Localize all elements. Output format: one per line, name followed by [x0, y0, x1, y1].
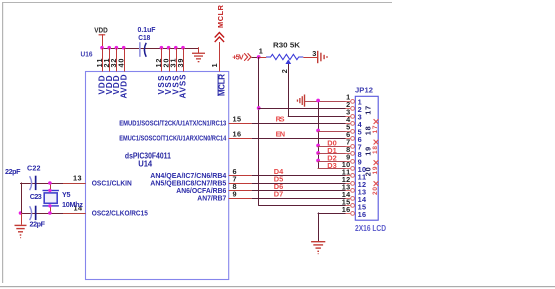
U16 reference text — [81, 50, 93, 59]
JP12 outside pin number labels 1-16 — [342, 93, 351, 215]
svg-text:16: 16 — [358, 210, 367, 219]
pin number 2 (R30 wiper, rotated) — [280, 69, 289, 73]
pin number 1 (R30) — [259, 47, 263, 56]
svg-text:JP12: JP12 — [355, 85, 373, 94]
pin names inside chip top (rotated) — [98, 74, 227, 99]
junction node rail/pin2 wire — [257, 106, 261, 110]
pin number 16 — [233, 129, 242, 138]
svg-text:17: 17 — [363, 106, 372, 115]
pin name AN4 row — [150, 171, 227, 180]
pin numbers 6,7,8,9 — [233, 167, 237, 199]
svg-text:39: 39 — [176, 59, 185, 68]
wire OSC2 row — [20, 213, 63, 214]
wire wiper to JP12 pin3 — [288, 116, 346, 117]
chip right pin 15 stub (RS) — [229, 123, 252, 124]
svg-text:C18: C18 — [138, 33, 150, 42]
svg-text:MCLR: MCLR — [216, 4, 225, 28]
ground (bottom-left, crystal) — [15, 213, 27, 238]
ground (right of R30, rotated) — [312, 51, 328, 63]
ground (top, at C18 bus) — [192, 47, 205, 62]
svg-text:OSC1/CLKIN: OSC1/CLKIN — [92, 179, 132, 188]
svg-text:9: 9 — [233, 189, 237, 198]
port MCLR (top) — [215, 4, 226, 42]
net label RS — [276, 115, 285, 124]
svg-text:Y5: Y5 — [62, 190, 71, 199]
pin number labels top (rotated) — [95, 59, 219, 68]
wire ground to JP12 pin1 — [305, 101, 346, 102]
pin number 14 — [74, 204, 83, 213]
svg-text:2: 2 — [280, 69, 289, 73]
wire +5V rail to JP12 pin15 — [258, 205, 346, 206]
chip right pins 6-9 stubs (D4-D7) — [229, 175, 252, 199]
wire MCLR to pin 1 — [219, 42, 220, 72]
node dots OSC rows — [19, 181, 52, 215]
svg-text:16: 16 — [342, 205, 351, 214]
wire R30 wiper down — [288, 64, 289, 117]
wire left rail vertical — [21, 183, 22, 214]
wire JP12 pin16 down — [318, 213, 319, 242]
svg-text:18: 18 — [372, 146, 379, 154]
wire stub D3 to pin10 — [318, 168, 346, 169]
svg-text:20: 20 — [363, 167, 372, 176]
no-connect X marks pins 17-20 — [374, 119, 379, 186]
pin number 15 — [233, 114, 242, 123]
pin name AN6 row — [176, 186, 226, 195]
wire RS to JP12 pin4 — [252, 123, 346, 124]
IC U14 dsPIC30F4011 body — [86, 72, 229, 280]
svg-text:U16: U16 — [81, 50, 93, 59]
svg-text:AN7/RB7: AN7/RB7 — [197, 194, 226, 203]
svg-text:AVSS: AVSS — [179, 74, 188, 99]
svg-text:C22: C22 — [27, 163, 41, 172]
svg-text:EMUC1/SOSCO/T1CK/U1ARX/CN0/RC1: EMUC1/SOSCO/T1CK/U1ARX/CN0/RC14 — [119, 134, 227, 143]
net labels D0-D3 — [327, 138, 337, 170]
svg-text:20: 20 — [372, 187, 379, 195]
wire +5V rail vertical — [258, 57, 259, 206]
wire grounded bus vertical (pins 1,5,7-10) — [318, 100, 319, 168]
capacitor C22 — [5, 163, 41, 190]
svg-text:10Mhz: 10Mhz — [62, 200, 83, 209]
wire stub D2 to pin9 — [318, 161, 346, 162]
svg-text:13: 13 — [73, 174, 82, 183]
2X16 LCD label — [355, 224, 386, 233]
pin name OSC1/CLKIN — [92, 179, 132, 188]
net label EN — [276, 130, 286, 139]
svg-text:C23: C23 — [30, 192, 42, 201]
svg-text:40: 40 — [116, 59, 125, 68]
svg-text:2X16 LCD: 2X16 LCD — [355, 224, 386, 233]
chip left pin 14 OSC2 stub — [63, 213, 86, 214]
wire VDD bus left segment — [102, 48, 146, 49]
svg-text:R30 5K: R30 5K — [273, 41, 301, 50]
svg-text:D7: D7 — [274, 190, 284, 199]
ground (rotated, at JP12 pin1) — [297, 95, 305, 107]
svg-text:VDD: VDD — [94, 26, 108, 35]
JP12 inside pin numbers 1-16 — [358, 97, 367, 219]
port +5V — [232, 53, 251, 62]
pin name EMUD1 row — [119, 119, 226, 128]
junction dots grounded bus — [316, 99, 320, 163]
pin name EMUC1 row — [119, 134, 227, 143]
svg-text:18: 18 — [363, 126, 372, 135]
svg-text:15: 15 — [233, 114, 242, 123]
JP12 right-side pin numbers 17-20 (rotated) — [363, 106, 372, 177]
wire stub D0 to pin7 — [318, 146, 346, 147]
no-connect pin name ticks 17-20 (red rotated) — [372, 125, 379, 195]
svg-text:3: 3 — [312, 49, 316, 58]
wire +5V to JP12 pin2 — [258, 108, 346, 109]
capacitor C23 — [30, 192, 46, 228]
svg-text:22pF: 22pF — [5, 167, 21, 176]
svg-text:1: 1 — [210, 63, 219, 67]
svg-text:22pF: 22pF — [30, 220, 46, 229]
pin stubs VSS pins 12,20,31,39 — [161, 48, 184, 72]
wire stub D1 to pin8 — [318, 153, 346, 154]
svg-text:+5V: +5V — [232, 53, 244, 62]
svg-text:U14: U14 — [138, 160, 153, 169]
pin stubs VDD pins 11,21,32,40 — [102, 48, 125, 72]
resistor R30 (potentiometer) — [259, 41, 312, 64]
wire VDD bus right segment — [145, 48, 199, 49]
pin name AN5 row — [150, 179, 226, 188]
svg-text:EN: EN — [276, 130, 286, 139]
wire EN to JP12 pin6 — [252, 138, 346, 139]
svg-text:17: 17 — [372, 125, 379, 133]
pin name OSC2/CLKO/RC15 — [92, 209, 148, 218]
svg-text:1: 1 — [259, 47, 263, 56]
svg-text:19: 19 — [372, 166, 379, 174]
power VDD symbol — [94, 26, 108, 48]
pin number 3 (R30) — [312, 49, 316, 58]
chip right pin 16 stub (EN) — [229, 138, 252, 139]
crystal Y5 — [43, 183, 84, 213]
junction node +5V / R30 pin1 — [257, 55, 261, 59]
wire JP12 pin16 horizontal — [318, 213, 346, 214]
pin number 13 — [73, 174, 82, 183]
svg-text:RS: RS — [276, 115, 285, 124]
svg-text:MCLR: MCLR — [217, 74, 226, 96]
chip left pin 13 OSC1 stub — [63, 183, 86, 184]
svg-text:OSC2/CLKO/RC15: OSC2/CLKO/RC15 — [92, 209, 148, 218]
ground (bottom middle) — [311, 241, 325, 254]
JP12 pin stubs and circles 1-16 — [346, 100, 355, 216]
svg-text:D3: D3 — [327, 161, 337, 170]
pin name AN7 row — [197, 194, 226, 203]
junction node dots on VDD bus — [100, 46, 185, 50]
svg-text:EMUD1/SOSCI/T2CK/U1ATX/CN1/RC1: EMUD1/SOSCI/T2CK/U1ATX/CN1/RC13 — [119, 119, 226, 128]
svg-text:16: 16 — [233, 129, 242, 138]
net labels D4-D7 — [274, 167, 284, 199]
svg-text:19: 19 — [363, 147, 372, 156]
wire OSC1 row — [20, 183, 63, 184]
svg-text:AVDD: AVDD — [119, 74, 128, 98]
capacitor C18 — [138, 25, 157, 57]
wire +5V port to R30 pin1 — [252, 57, 259, 58]
connector JP12 body — [355, 85, 378, 220]
wire to JP12 pin5 — [318, 131, 346, 132]
wires D4-D7 to JP12 pins 11-14 — [252, 175, 346, 199]
